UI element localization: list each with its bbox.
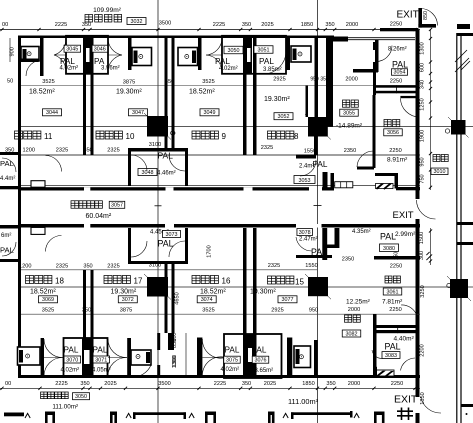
wall gengyi-huanxie divider — [373, 95, 376, 168]
svg-text:3100: 3100 — [149, 263, 161, 269]
door arc room11 from vestibule — [46, 156, 62, 172]
svg-text:19.30m²: 19.30m² — [111, 288, 137, 295]
svg-text:3045: 3045 — [66, 47, 78, 53]
svg-text:3525: 3525 — [42, 79, 54, 85]
room tag 3048 — [138, 169, 157, 176]
structural column grid2-A — [305, 114, 331, 140]
svg-text:3072: 3072 — [122, 297, 134, 303]
far right stub 3 — [457, 242, 473, 245]
svg-text:900: 900 — [10, 47, 16, 56]
svg-text:1500: 1500 — [419, 232, 425, 244]
room tag 3071 — [93, 356, 110, 363]
rooms top band upper dim line y85.5 — [21, 85, 420, 87]
far right wall line 1 — [456, 33, 458, 423]
chase wall v2 — [165, 264, 168, 333]
toilet fixture room15 S — [294, 346, 311, 368]
PAL pair 1 divider gap — [86, 48, 90, 62]
svg-text:2225: 2225 — [214, 381, 226, 387]
axis dash on grid 1 — [155, 205, 162, 207]
door arc 3083 — [372, 350, 383, 359]
svg-text:00: 00 — [5, 381, 11, 387]
room name caozuoshi 9 — [192, 131, 218, 139]
far right dark bar top — [457, 24, 470, 29]
svg-text:4.02m²: 4.02m² — [61, 368, 80, 374]
svg-text:3073: 3073 — [166, 232, 178, 238]
axis dash on grid 2 — [314, 205, 322, 207]
svg-text:2250: 2250 — [391, 381, 403, 387]
PAL pair 1b divider — [82, 338, 92, 377]
corridor north wall seg2 — [322, 187, 334, 190]
north exterior wall — [18, 36, 334, 39]
bottom edge stub leg 2b — [213, 412, 216, 423]
bottom edge wall stub 0 — [45, 412, 55, 416]
corridor tag 3050b — [73, 393, 90, 400]
room tag 3073 — [163, 231, 181, 238]
svg-text:2250: 2250 — [390, 79, 402, 85]
svg-text:3052: 3052 — [278, 114, 290, 120]
svg-text:350: 350 — [325, 22, 334, 28]
svg-text:19.30m²: 19.30m² — [264, 96, 290, 103]
PAL pair 2 divider — [246, 36, 253, 74]
right vdim ticks — [429, 28, 432, 189]
chase wall v2 — [165, 36, 168, 148]
WC door bar b-left — [41, 338, 44, 376]
svg-text:3500: 3500 — [158, 381, 170, 387]
svg-text:3.96m²: 3.96m² — [101, 66, 120, 72]
bottom edge stub leg 4b — [382, 412, 385, 423]
bottom edge wall stub 4 — [374, 412, 385, 416]
WC east wall left — [40, 36, 44, 57]
svg-text:350: 350 — [326, 381, 335, 387]
bottom edge bar far left — [4, 413, 24, 417]
svg-text:2350: 2350 — [344, 148, 356, 154]
svg-text:3875: 3875 — [120, 308, 132, 314]
vestibule 3078 S wall — [296, 255, 332, 258]
room name huanxie bottom — [385, 276, 400, 283]
far right bottom stub — [461, 404, 473, 407]
svg-text:750: 750 — [420, 174, 426, 183]
svg-text:350: 350 — [82, 308, 91, 314]
svg-text:2250: 2250 — [389, 307, 401, 313]
far right diagonal hatch — [455, 50, 470, 72]
grid line axis A horizontal y=126.6 — [21, 126, 473, 128]
svg-text:2225: 2225 — [55, 22, 67, 28]
svg-text:4.35m²: 4.35m² — [352, 229, 371, 235]
svg-text:3080: 3080 — [383, 246, 395, 252]
right vdim chain line — [430, 30, 432, 191]
far right column B — [447, 276, 471, 301]
room tag 3053 — [294, 176, 315, 184]
WC fixture room17 S — [131, 350, 151, 365]
svg-text:10: 10 — [126, 132, 135, 141]
room name huanxie top — [384, 120, 400, 127]
structural column grid1-A — [144, 113, 171, 140]
top dimension ticks — [0, 28, 416, 31]
svg-text:3.65m²: 3.65m² — [255, 368, 274, 374]
wall y69-72 x353-378 — [353, 69, 378, 73]
corridor north wall seg3 — [396, 187, 420, 190]
svg-text:3082: 3082 — [346, 331, 358, 337]
bottom edge long bar 2 leg b — [350, 411, 353, 418]
svg-text:-14.89m²: -14.89m² — [336, 123, 363, 130]
svg-text:2925: 2925 — [271, 308, 283, 314]
toilet fixture room9 — [178, 48, 198, 66]
chase wall v3 — [172, 36, 175, 148]
svg-text:2250: 2250 — [390, 22, 402, 28]
WC door bar room8 — [286, 37, 290, 70]
svg-text:3076: 3076 — [255, 358, 267, 364]
svg-text:6m²: 6m² — [1, 233, 11, 239]
huanxie S wall — [375, 173, 396, 176]
PAL pair 1b divider gap — [84, 350, 90, 364]
counter bar rb 2 — [377, 330, 419, 333]
bottom edge stub leg 0b — [52, 412, 55, 423]
top right upper wall — [380, 28, 418, 31]
left vestibule top S wall — [0, 186, 18, 189]
svg-text:3047: 3047 — [132, 110, 144, 116]
PAL pair 1 divider — [85, 36, 92, 74]
svg-text:3100: 3100 — [149, 142, 161, 148]
svg-text:3077: 3077 — [282, 297, 294, 303]
wall SE of 3053 h — [331, 173, 335, 189]
vestibule 3073 S wall — [131, 261, 185, 264]
svg-text:PAL: PAL — [385, 342, 401, 352]
svg-text:950: 950 — [420, 157, 426, 166]
huanxie corridor door arc — [401, 98, 420, 117]
east wall middle — [416, 219, 420, 397]
room name caozuoshi 11 — [15, 131, 41, 139]
gengyi S door arc — [357, 151, 374, 167]
exit jamb top right v — [418, 8, 422, 28]
bottom edge long bar 2 — [291, 412, 353, 415]
north wall right thin 1 — [334, 37, 415, 39]
svg-text:3070: 3070 — [66, 357, 78, 363]
svg-text:PAL: PAL — [392, 60, 408, 70]
svg-text:2025: 2025 — [104, 381, 116, 387]
room tag 3076 — [252, 356, 269, 363]
svg-text:4.05m²: 4.05m² — [92, 368, 111, 374]
WC door bar b4 — [287, 338, 292, 378]
svg-text:18.52m²: 18.52m² — [30, 288, 56, 295]
vestibule 3073 E wall — [185, 228, 188, 264]
svg-text:8: 8 — [294, 132, 299, 141]
svg-text:1550: 1550 — [305, 263, 317, 269]
svg-text:18: 18 — [55, 277, 64, 286]
vestibule 3048 arc E — [169, 155, 185, 171]
svg-text:4.02m²: 4.02m² — [221, 367, 240, 373]
exit door arc bottom right — [421, 397, 441, 413]
svg-text:15: 15 — [295, 278, 304, 287]
svg-text:350: 350 — [165, 79, 174, 85]
counter divider tr — [396, 85, 398, 93]
chase wall v6 — [243, 228, 247, 377]
svg-text:350: 350 — [82, 22, 91, 28]
wall x373 upper — [373, 42, 376, 95]
svg-text:850: 850 — [423, 11, 429, 20]
svg-text:EXIT: EXIT — [397, 10, 419, 21]
door arc room18 from vestibule — [46, 236, 62, 252]
structural column grid2-B — [305, 274, 331, 299]
left vestibule bottom arc — [2, 242, 16, 256]
svg-text:350: 350 — [83, 264, 92, 270]
room tag 3070 — [64, 356, 81, 363]
bottom edge long bar 1 — [133, 412, 186, 415]
wall h x327-339 — [327, 245, 339, 249]
door arc pair2 east — [264, 52, 286, 74]
svg-text:EXIT: EXIT — [393, 210, 414, 221]
svg-text:350: 350 — [242, 381, 251, 387]
svg-text:PAL: PAL — [259, 57, 274, 66]
huanxie door stub — [400, 96, 419, 98]
vestibule 3053 arc — [300, 160, 316, 176]
grid line axis B horizontal y=287 — [21, 286, 473, 288]
svg-text:16: 16 — [222, 277, 231, 286]
corridor jamb box top left — [31, 181, 45, 188]
left vestibule bottom S wall — [0, 259, 18, 262]
svg-text:350: 350 — [242, 22, 251, 28]
svg-text:2.99m²: 2.99m² — [395, 231, 416, 238]
svg-text:2325: 2325 — [107, 264, 119, 270]
room tag 3069 — [39, 296, 58, 303]
door butterfly b-left — [44, 339, 63, 358]
door butterfly b3 — [202, 339, 226, 358]
svg-text:2325: 2325 — [56, 264, 68, 270]
svg-text:3050: 3050 — [228, 48, 240, 54]
bottom edge stub leg 4a — [374, 412, 377, 423]
svg-text:18.52m²: 18.52m² — [29, 89, 55, 96]
chase wall v5 — [168, 333, 174, 350]
room name gengyi top — [343, 100, 359, 107]
svg-text:PAL: PAL — [313, 160, 328, 169]
toilet tank room8 — [293, 49, 297, 61]
svg-text:2000: 2000 — [348, 381, 360, 387]
corridor tag 3057 — [109, 201, 125, 208]
PAL pair 2b divider — [247, 334, 254, 378]
svg-text:3078: 3078 — [299, 230, 311, 236]
door butterfly pair1 east — [108, 38, 122, 55]
svg-text:3074: 3074 — [201, 297, 213, 303]
wall x375-378 upper — [375, 40, 379, 73]
wall x373 gengyi bottom — [373, 314, 377, 377]
svg-text:3053: 3053 — [299, 178, 311, 184]
chase wall v1 — [91, 270, 94, 377]
room name caozuoshi 17 — [104, 276, 130, 284]
svg-text:1850: 1850 — [302, 381, 314, 387]
svg-text:3032: 3032 — [131, 19, 143, 25]
bottom edge wall stub 3 — [268, 412, 275, 416]
WC door bar left — [40, 57, 44, 76]
svg-text:150: 150 — [394, 252, 400, 261]
svg-text:2225: 2225 — [55, 381, 67, 387]
svg-text:3525: 3525 — [202, 308, 214, 314]
svg-text:3055: 3055 — [343, 111, 355, 117]
door arc b2 under — [131, 365, 151, 377]
svg-text:00: 00 — [2, 22, 8, 28]
toilet fixture room10 — [132, 48, 152, 66]
svg-text:600: 600 — [420, 63, 426, 72]
room tag 3045 — [64, 45, 81, 52]
svg-text:3046: 3046 — [94, 47, 106, 53]
svg-text:18.52m²: 18.52m² — [200, 288, 226, 295]
corridor south wall — [21, 224, 420, 228]
svg-text:3525: 3525 — [42, 308, 54, 314]
svg-text:350: 350 — [80, 381, 89, 387]
counter bar rb 1 — [377, 325, 419, 328]
svg-text:2000: 2000 — [348, 307, 360, 313]
svg-text:3056: 3056 — [387, 130, 399, 136]
left vestibule top arc — [2, 158, 16, 172]
vestibule 3073 arc E — [169, 241, 185, 257]
chase wall v8 — [314, 340, 318, 377]
chase wall v7 — [253, 36, 257, 155]
svg-text:EXIT: EXIT — [394, 394, 418, 406]
svg-text:12.25m²: 12.25m² — [346, 299, 371, 306]
bottom edge long bar 1 leg b — [184, 412, 187, 419]
door butterfly 1b east — [108, 339, 127, 358]
north wall right thin 2 — [334, 39, 415, 41]
room tag 3075 — [224, 356, 241, 363]
vdim line x186 — [185, 333, 187, 377]
corridor tag 3010 — [431, 168, 448, 175]
svg-text:17: 17 — [134, 277, 143, 286]
svg-text:1300: 1300 — [420, 42, 426, 54]
toilet tank room10 — [134, 51, 138, 64]
vestibule 3048 N wall — [131, 148, 185, 152]
bottom edge hash wall symbol — [397, 408, 413, 421]
toilet fixture room18 SW — [18, 347, 41, 365]
svg-text:50: 50 — [7, 79, 13, 85]
exit door arc top right — [421, 9, 438, 26]
svg-text:3500: 3500 — [159, 21, 171, 27]
svg-text:950: 950 — [309, 308, 318, 314]
bottom edge stub leg 3b — [272, 412, 275, 423]
svg-text:3048: 3048 — [142, 170, 154, 176]
vestibule 3048 arc W — [131, 155, 147, 171]
svg-text:111.00m³: 111.00m³ — [288, 397, 319, 406]
WC door bar room10 — [128, 37, 132, 70]
louver enclosure W — [374, 367, 377, 377]
corridor north line — [21, 185, 420, 187]
svg-text:3071: 3071 — [95, 357, 107, 363]
bottom edge door swing marks — [25, 413, 359, 418]
svg-text:60.04m²: 60.04m² — [86, 213, 112, 220]
svg-text:PAL: PAL — [252, 346, 267, 355]
svg-text:2250: 2250 — [390, 264, 402, 270]
top dimension line — [0, 29, 420, 31]
corridor south wall gaps — [84, 224, 90, 228]
room tag 3047 — [129, 109, 148, 116]
east wall upper — [416, 30, 420, 200]
svg-text:4.46m²: 4.46m² — [157, 171, 176, 177]
chase wall v10 — [315, 36, 319, 117]
bottom edge wall stub 2 — [205, 412, 216, 416]
svg-text:PAL: PAL — [158, 239, 174, 249]
svg-text:9: 9 — [222, 132, 227, 141]
chase wall v7 — [253, 228, 257, 377]
room tag 3082 — [342, 330, 361, 337]
far right stub 2 — [457, 222, 473, 225]
svg-text:8.91m²: 8.91m² — [387, 157, 408, 164]
svg-text:7.81m²: 7.81m² — [382, 299, 403, 306]
bottom dimension ticks — [0, 387, 416, 390]
room name caozuoshi 15 — [268, 276, 294, 284]
svg-text:4650: 4650 — [175, 292, 181, 304]
wall SE of 3053 v — [323, 172, 328, 189]
room tag 3049 — [200, 109, 219, 116]
corridor name top (bold hanzi) — [85, 15, 122, 23]
svg-text:PAL: PAL — [215, 57, 230, 66]
bottom edge long bar 1 leg a — [133, 412, 136, 419]
svg-text:PAL: PAL — [380, 232, 396, 242]
counter divider rb — [397, 325, 399, 333]
bottom rooms dim line y314.2 — [21, 313, 420, 315]
room tag 3051 — [254, 46, 273, 54]
grid bubble near column A — [171, 131, 175, 135]
chase wall v4 — [157, 365, 160, 377]
svg-text:2250: 2250 — [389, 148, 401, 154]
corridor jamb box bottom left — [31, 227, 45, 234]
exit door arc mid right — [417, 200, 436, 219]
vestibule 3053 N wall — [296, 155, 316, 159]
vestibule 3073 W wall — [128, 228, 131, 264]
corridor name right (zoulang) — [433, 155, 448, 162]
svg-text:3010: 3010 — [434, 169, 446, 175]
svg-text:109.99m²: 109.99m² — [93, 7, 122, 14]
svg-text:3051: 3051 — [258, 48, 270, 54]
door arc rb — [401, 305, 417, 316]
toilet fixture room11 NW — [21, 47, 39, 62]
svg-text:3061: 3061 — [387, 289, 399, 295]
svg-text:19.30m²: 19.30m² — [116, 89, 142, 96]
exit sill top right h — [418, 24, 436, 28]
svg-text:1850: 1850 — [301, 22, 313, 28]
right vdim ticks lower — [426, 229, 432, 262]
chase wall v0 — [83, 270, 86, 377]
WC door bar b2 — [127, 338, 131, 377]
louver block mid right — [376, 183, 393, 189]
svg-text:PAL: PAL — [64, 346, 79, 355]
toilet tank room9 — [192, 51, 196, 64]
svg-text:2025: 2025 — [261, 22, 273, 28]
svg-text:2325: 2325 — [261, 145, 273, 151]
left vestibule bottom N wall — [0, 225, 18, 229]
corridor name bottom (bold) — [41, 392, 69, 399]
svg-text:2.47m²: 2.47m² — [299, 237, 318, 243]
right section wall x326-333 — [326, 38, 333, 127]
chase wall v0 — [83, 36, 86, 155]
room tag 3055 — [340, 109, 359, 116]
room tag 3032 — [127, 18, 146, 25]
WC door bar room9 — [198, 37, 202, 70]
svg-text:1250: 1250 — [420, 98, 426, 110]
svg-text:PAL: PAL — [93, 346, 108, 355]
bottom edge stub leg 2a — [205, 412, 208, 423]
svg-text:3250: 3250 — [420, 285, 426, 297]
wall x322-327 bottom vest — [322, 228, 327, 260]
corridor tag 3078 — [297, 229, 313, 236]
gengyi S wall step — [357, 167, 374, 170]
svg-text:PAL: PAL — [0, 159, 14, 168]
room tag 3044 — [43, 109, 62, 116]
svg-text:4.02m²: 4.02m² — [60, 66, 79, 72]
door butterfly pair1 west — [54, 38, 66, 55]
chase wall v3 — [172, 264, 175, 333]
svg-text:3875: 3875 — [123, 80, 135, 86]
room tag 3080 — [380, 244, 399, 252]
left vestibule top N wall — [0, 152, 18, 155]
svg-text:340: 340 — [420, 80, 426, 89]
wall x373 gap — [373, 50, 376, 62]
